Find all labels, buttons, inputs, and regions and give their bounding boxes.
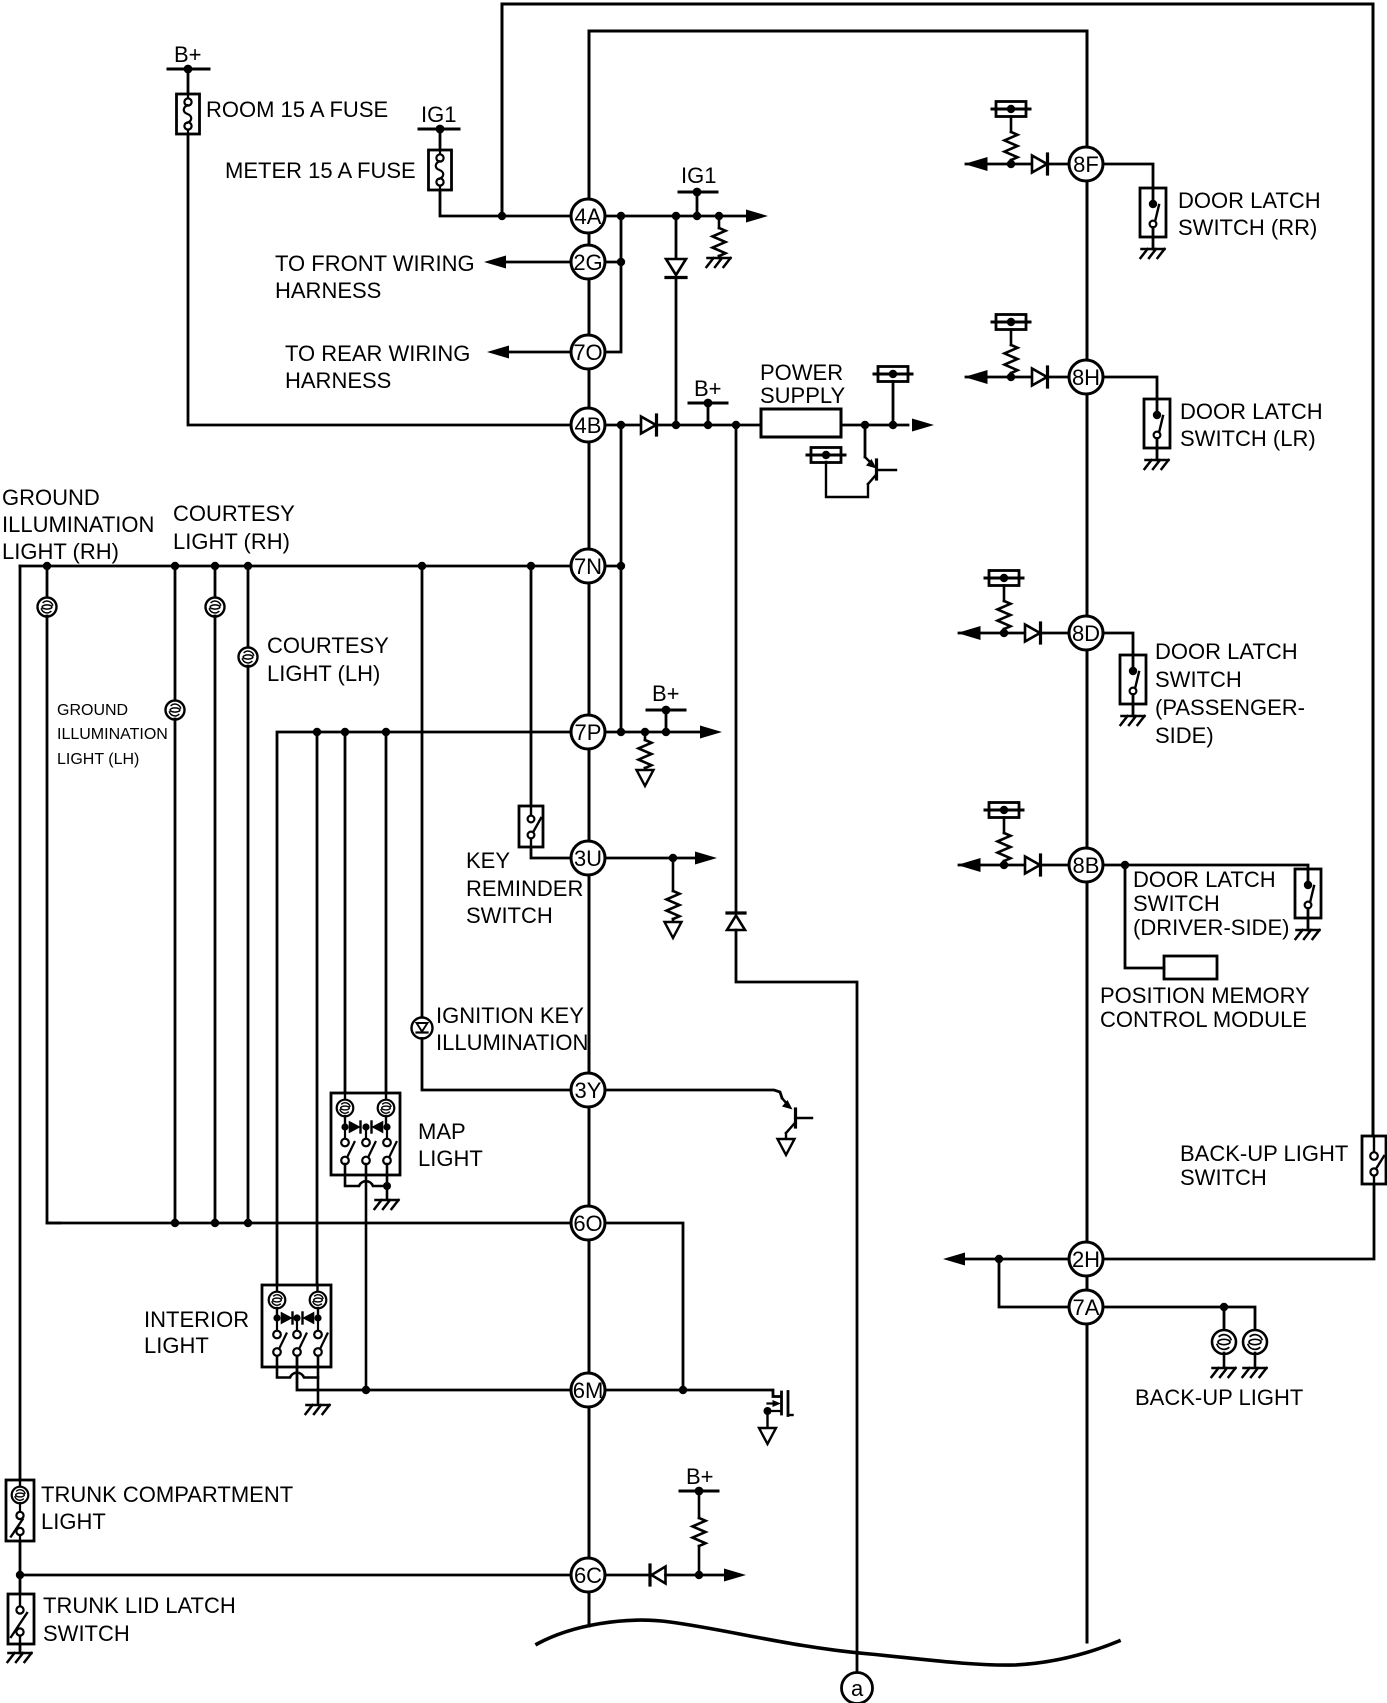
- svg-text:SWITCH (LR): SWITCH (LR): [1180, 426, 1316, 451]
- wire 3Y row right: [606, 1090, 782, 1098]
- wire 8H to door latch switch LR: [1104, 377, 1157, 399]
- connector 6C: [571, 1558, 605, 1592]
- ground back-up lamp 2: [1243, 1368, 1267, 1377]
- junction 7N-x175: [171, 562, 179, 570]
- wire interior right col to ground: [317, 1356, 320, 1404]
- svg-text:SWITCH (RR): SWITCH (RR): [1178, 215, 1317, 240]
- junction 2G-x621: [617, 258, 625, 266]
- wire trunk light to 6C row: [19, 1541, 22, 1575]
- lamp trunk compartment light: [12, 1487, 29, 1504]
- svg-text:SWITCH: SWITCH: [1155, 667, 1242, 692]
- wire 2H row left: [962, 1258, 1069, 1261]
- svg-text:2H: 2H: [1072, 1247, 1100, 1272]
- arrow power supply right: [912, 419, 934, 432]
- diode x736 (points up): [727, 911, 745, 914]
- svg-text:CONTROL MODULE: CONTROL MODULE: [1100, 1007, 1307, 1032]
- ground 4A row resistor: [707, 258, 731, 267]
- position memory control module box: [1164, 956, 1217, 979]
- wire power supply output: [841, 424, 908, 427]
- wire interior middle col to 6M row: [297, 1356, 571, 1390]
- ground trunk lid latch switch: [8, 1653, 32, 1662]
- junction 6C-trunk: [16, 1571, 24, 1579]
- svg-text:(PASSENGER-: (PASSENGER-: [1155, 695, 1305, 720]
- resistor 7P row pulldown: [644, 732, 647, 740]
- interior light box: [262, 1285, 331, 1367]
- junction 7N-x248: [244, 562, 252, 570]
- svg-text:8H: 8H: [1072, 365, 1100, 390]
- svg-text:GROUND: GROUND: [2, 485, 100, 510]
- wire 7A row right: [1104, 1307, 1255, 1331]
- door latch switch (passenger-side): [1120, 655, 1146, 725]
- arrow 7P row right: [700, 726, 722, 739]
- svg-text:INTERIOR: INTERIOR: [144, 1307, 249, 1332]
- wire 6C row right: [606, 1574, 650, 1577]
- switch interior col3: [317, 1318, 319, 1331]
- door latch switch (RR): [1140, 188, 1166, 258]
- wire 2G stub to x621: [606, 261, 621, 264]
- connector 7A: [1069, 1290, 1103, 1324]
- wire 6C row left: [20, 1574, 571, 1577]
- wire x422 7N to ignition key illumination: [421, 566, 424, 1018]
- svg-text:B+: B+: [686, 1464, 714, 1489]
- diode 6C row (points left): [648, 1565, 651, 1585]
- wire x736 diode to a-line: [736, 930, 857, 1672]
- junction 7P-x386: [382, 728, 390, 736]
- svg-text:TO FRONT WIRING: TO FRONT WIRING: [275, 251, 475, 276]
- connector 4A: [571, 199, 605, 233]
- junction 4A-x621: [617, 212, 625, 220]
- junction 7P-B+: [662, 728, 670, 736]
- svg-text:IGNITION KEY: IGNITION KEY: [436, 1003, 584, 1028]
- diode interior right (points left): [304, 1313, 314, 1323]
- svg-text:SWITCH: SWITCH: [43, 1621, 130, 1646]
- wire diode to power supply: [657, 424, 761, 427]
- connector 3Y: [571, 1073, 605, 1107]
- arrow 3U row right: [695, 852, 717, 865]
- wire x317 down to interior light: [316, 732, 319, 1285]
- junction 2H-7A link: [995, 1255, 1003, 1263]
- wire top inner line: [589, 31, 1087, 216]
- arrow 2H row left: [943, 1253, 965, 1266]
- lamp courtesy light RH: [206, 598, 225, 617]
- svg-text:GROUND: GROUND: [57, 702, 128, 719]
- svg-text:8D: 8D: [1072, 621, 1100, 646]
- svg-text:8F: 8F: [1073, 152, 1099, 177]
- wire back-up lamp 1 to ground: [1223, 1353, 1226, 1367]
- wire 8F to door latch switch RR: [1104, 164, 1153, 188]
- wire x345 down to map light: [344, 732, 347, 1093]
- svg-text:LIGHT (LH): LIGHT (LH): [267, 661, 380, 686]
- junction map ground: [383, 1182, 391, 1190]
- wire x20 down to trunk light: [19, 566, 22, 1480]
- diode map left (points right): [350, 1122, 360, 1132]
- wire into interior box: [276, 1285, 278, 1292]
- junction 6C-B+: [695, 1571, 703, 1579]
- svg-text:B+: B+: [652, 681, 680, 706]
- terminal at transistor emitter: [807, 448, 845, 463]
- junction 6O-x175: [171, 1219, 179, 1227]
- junction 6O-x215: [211, 1219, 219, 1227]
- switch trunk compartment light: [19, 1503, 21, 1512]
- terminal+resistor+diode assembly at 8F: [966, 102, 1081, 175]
- wire 4B output row: [606, 424, 641, 427]
- connector a (bottom): [842, 1673, 873, 1703]
- wire map lamp columns: [344, 1116, 346, 1127]
- wire x215 upper: [214, 566, 217, 598]
- svg-text:BACK-UP LIGHT: BACK-UP LIGHT: [1180, 1141, 1348, 1166]
- junction 7P-x345: [341, 728, 349, 736]
- transistor Q1 (power supply control): [864, 425, 867, 457]
- wire back-up lamp 2 to ground: [1254, 1353, 1257, 1367]
- wire B+ to room fuse: [187, 69, 190, 94]
- wire LED to 3Y: [422, 1039, 571, 1091]
- connector 7P: [571, 715, 605, 749]
- connector 8F: [1069, 147, 1103, 181]
- ground arrow Q2 emitter: [778, 1139, 795, 1155]
- svg-text:KEY: KEY: [466, 848, 510, 873]
- wire trunk lid latch to ground: [19, 1644, 22, 1653]
- svg-text:DOOR LATCH: DOOR LATCH: [1180, 399, 1323, 424]
- ground arrow 7P resistor: [644, 768, 647, 770]
- diode 4B row (points right): [641, 415, 657, 435]
- lamp courtesy light LH: [239, 648, 258, 667]
- svg-text:REMINDER: REMINDER: [466, 876, 583, 901]
- svg-text:6C: 6C: [574, 1563, 602, 1588]
- ground arrow 3U resistor: [672, 919, 675, 922]
- connector 7O: [571, 335, 605, 369]
- wire into map box: [344, 1093, 346, 1100]
- wire 6M row right: [606, 1390, 780, 1397]
- MOSFET (6M row): [780, 1392, 783, 1414]
- junction 4B-x736: [732, 421, 740, 429]
- svg-text:a: a: [851, 1676, 864, 1701]
- svg-text:TRUNK LID LATCH: TRUNK LID LATCH: [43, 1593, 236, 1618]
- wire IG1 to meter fuse: [439, 129, 442, 150]
- svg-text:ILLUMINATION: ILLUMINATION: [2, 512, 154, 537]
- svg-text:LIGHT: LIGHT: [41, 1509, 106, 1534]
- wire 2G arrow to front harness: [503, 261, 571, 264]
- fuse METER 15 A FUSE: [429, 150, 452, 190]
- svg-text:2G: 2G: [573, 250, 602, 275]
- wire 3U row right: [606, 857, 699, 860]
- wire 2H link down to 7A: [999, 1259, 1069, 1307]
- switch map col1: [344, 1127, 346, 1139]
- diode interior left (points right): [282, 1313, 292, 1323]
- wire x175 lamp to 6O row: [174, 719, 177, 1223]
- wire top outer line: [502, 4, 1373, 1136]
- svg-text:IG1: IG1: [421, 102, 456, 127]
- wire 6C diode to arrow: [666, 1574, 729, 1577]
- junction 7N-x422: [418, 562, 426, 570]
- wire x531 7N to key reminder switch: [530, 566, 533, 806]
- wire map join with hop: [345, 1164, 387, 1186]
- svg-text:7P: 7P: [575, 720, 602, 745]
- junction 8B-module: [1121, 861, 1129, 869]
- junction map diode row: [341, 1123, 348, 1130]
- junction x621-7P: [617, 728, 625, 736]
- lamp back-up light 1: [1212, 1330, 1236, 1354]
- wire x621 4B to 7P: [620, 425, 623, 732]
- svg-text:(DRIVER-SIDE): (DRIVER-SIDE): [1133, 915, 1289, 940]
- svg-text:7N: 7N: [574, 554, 602, 579]
- trunk lid latch switch box: [8, 1594, 34, 1644]
- svg-text:COURTESY: COURTESY: [173, 501, 295, 526]
- wire 7N row left: [20, 565, 571, 568]
- svg-text:SWITCH: SWITCH: [1133, 891, 1220, 916]
- svg-text:HARNESS: HARNESS: [285, 368, 391, 393]
- connector 8B: [1069, 848, 1103, 882]
- switch map col2: [365, 1127, 367, 1139]
- resistor B+ to 6C row: [698, 1491, 701, 1518]
- map light box: [331, 1093, 400, 1175]
- svg-text:METER 15 A FUSE: METER 15 A FUSE: [225, 158, 416, 183]
- transistor Q2 (3Y branch): [782, 1098, 787, 1104]
- junction ps-terminal: [889, 421, 897, 429]
- wire x386 down to map light: [385, 732, 388, 1093]
- junction 4B-x621: [617, 421, 625, 429]
- connector 6O: [571, 1206, 605, 1240]
- wire map middle col to 6M: [365, 1164, 368, 1390]
- svg-text:6M: 6M: [573, 1378, 604, 1403]
- svg-text:LIGHT: LIGHT: [144, 1333, 209, 1358]
- terminal+resistor+diode assembly at 8D: [959, 571, 1074, 644]
- svg-text:POSITION MEMORY: POSITION MEMORY: [1100, 983, 1310, 1008]
- wire 7P row right: [606, 731, 704, 734]
- fuse ROOM 15 A FUSE: [177, 94, 200, 134]
- terminal+resistor+diode assembly at 8B: [959, 803, 1074, 876]
- lamp back-up light 2: [1243, 1330, 1267, 1354]
- junction 4A-diode: [672, 212, 680, 220]
- wire into trunk light box: [19, 1480, 21, 1488]
- arrow to rear wiring harness: [487, 346, 509, 359]
- wire main center bus: [588, 216, 591, 1626]
- wire 4A output row: [606, 215, 750, 218]
- lamp map light left: [337, 1100, 354, 1117]
- wire 6O row right down to 6M: [606, 1223, 683, 1390]
- svg-text:B+: B+: [694, 376, 722, 401]
- lamp interior right: [310, 1292, 327, 1309]
- wire 8B to door latch switch driver: [1104, 865, 1308, 869]
- wire meter fuse to 4A: [440, 190, 571, 216]
- arrow to front wiring harness: [484, 256, 506, 269]
- svg-text:DOOR LATCH: DOOR LATCH: [1133, 867, 1276, 892]
- svg-text:MAP: MAP: [418, 1119, 466, 1144]
- door latch switch (LR): [1144, 399, 1170, 469]
- wire 6O row left: [47, 1222, 571, 1225]
- svg-text:SWITCH: SWITCH: [466, 903, 553, 928]
- wire map right col to ground: [386, 1164, 389, 1199]
- connector 3U: [571, 841, 605, 875]
- lamp map light right: [378, 1100, 395, 1117]
- ground map light: [375, 1200, 399, 1209]
- connector 2H: [1069, 1242, 1103, 1276]
- svg-text:IG1: IG1: [681, 163, 716, 188]
- junction 4B-B+: [704, 421, 712, 429]
- ground back-up lamp 1: [1212, 1368, 1236, 1377]
- diode 4A row down (under 4A line): [675, 216, 678, 259]
- terminal+resistor+diode assembly at 8H: [966, 315, 1081, 388]
- wire 6C row to trunk lid latch: [19, 1575, 22, 1594]
- svg-text:DOOR LATCH: DOOR LATCH: [1155, 639, 1298, 664]
- junction 3U-resistor: [669, 854, 677, 862]
- connector 4B: [571, 408, 605, 442]
- diode map right (points left): [373, 1122, 383, 1132]
- power supply box: [761, 409, 841, 437]
- svg-text:LIGHT (RH): LIGHT (RH): [173, 529, 290, 554]
- wire key reminder switch to 3U: [531, 847, 571, 858]
- wire 8D to door latch switch passenger: [1104, 633, 1133, 655]
- wave break line: [537, 1620, 1119, 1665]
- junction 4B-diode column: [672, 421, 680, 429]
- wire interior join with hop: [277, 1356, 318, 1378]
- lamp ground illumination light RH: [38, 598, 57, 617]
- LED ignition key illumination: [412, 1018, 433, 1039]
- junction 7N-x215: [211, 562, 219, 570]
- door latch switch (driver-side): [1295, 869, 1321, 939]
- wire 7P row left: [277, 732, 571, 1285]
- connector 6M: [571, 1373, 605, 1407]
- lamp ground illumination light LH: [166, 701, 185, 720]
- wire 8B to position memory control module: [1125, 865, 1164, 968]
- svg-text:8B: 8B: [1073, 853, 1100, 878]
- arrow 4A row right: [746, 210, 768, 223]
- svg-text:SIDE): SIDE): [1155, 723, 1214, 748]
- svg-text:6O: 6O: [573, 1211, 602, 1236]
- junction ps-transistor: [861, 421, 869, 429]
- svg-text:4A: 4A: [575, 204, 602, 229]
- switch interior col2: [296, 1318, 298, 1331]
- junction 6M-x683: [679, 1386, 687, 1394]
- wire x736 down from 4B: [735, 425, 738, 913]
- arrow 6C row right: [724, 1569, 746, 1582]
- wire x47 lamp to 6O row: [47, 616, 60, 1223]
- wire diode to 4B row: [675, 278, 678, 426]
- svg-text:BACK-UP LIGHT: BACK-UP LIGHT: [1135, 1385, 1303, 1410]
- junction 7N-x531: [527, 562, 535, 570]
- svg-text:7O: 7O: [573, 340, 602, 365]
- svg-text:ILLUMINATION: ILLUMINATION: [436, 1030, 588, 1055]
- trunk compartment light box: [6, 1480, 34, 1541]
- junction 7A-lamp1: [1220, 1303, 1228, 1311]
- junction 4A-resistor: [715, 212, 723, 220]
- svg-text:HARNESS: HARNESS: [275, 278, 381, 303]
- wire right bus: [1086, 31, 1089, 1642]
- connector 2G: [571, 245, 605, 279]
- junction 6O-x248: [244, 1219, 252, 1227]
- lamp interior left: [269, 1292, 286, 1309]
- svg-text:ROOM 15 A FUSE: ROOM 15 A FUSE: [206, 97, 388, 122]
- svg-text:TO REAR WIRING: TO REAR WIRING: [285, 341, 470, 366]
- junction 4A-IG1: [693, 212, 701, 220]
- wire 7A to back-up lamp 1: [1223, 1307, 1226, 1331]
- resistor 3U pulldown: [672, 858, 675, 891]
- wire room fuse to 4B: [188, 134, 571, 425]
- svg-text:7A: 7A: [1073, 1295, 1100, 1320]
- wire 7N stub right: [606, 565, 621, 568]
- wire x248 upper: [247, 566, 250, 648]
- svg-text:SUPPLY: SUPPLY: [760, 383, 846, 408]
- svg-text:3Y: 3Y: [575, 1078, 602, 1103]
- svg-text:LIGHT (RH): LIGHT (RH): [2, 539, 119, 564]
- junction 7N-x47: [43, 562, 51, 570]
- connector 8H: [1069, 360, 1103, 394]
- resistor 4A row to ground: [718, 216, 721, 228]
- wire interior lamp columns: [276, 1308, 278, 1318]
- wire back-up light switch to 2H: [1104, 1184, 1374, 1259]
- wire x215 lamp to 6O row: [214, 616, 217, 1223]
- wire x175 upper: [174, 566, 177, 701]
- wire x47 upper: [46, 566, 49, 598]
- wire 7O arrow to rear harness: [506, 351, 571, 354]
- junction 7P-x317: [313, 728, 321, 736]
- key reminder switch: [519, 806, 543, 847]
- svg-text:SWITCH: SWITCH: [1180, 1165, 1267, 1190]
- wire x621 bus 4A-7O: [606, 216, 621, 352]
- connector 7N: [571, 549, 605, 583]
- junction 6M-x366: [362, 1386, 370, 1394]
- wire x248 lamp to 6O row: [247, 666, 250, 1223]
- junction 7P-resistor: [641, 728, 649, 736]
- terminal above power supply output: [874, 367, 912, 382]
- connector 8D: [1069, 616, 1103, 650]
- svg-text:LIGHT: LIGHT: [418, 1146, 483, 1171]
- junction top outer line on 4A wire: [498, 212, 506, 220]
- svg-text:ILLUMINATION: ILLUMINATION: [57, 726, 168, 743]
- svg-text:COURTESY: COURTESY: [267, 633, 389, 658]
- svg-text:4B: 4B: [575, 413, 602, 438]
- svg-text:DOOR LATCH: DOOR LATCH: [1178, 188, 1321, 213]
- back-up light switch: [1362, 1136, 1386, 1184]
- svg-text:POWER: POWER: [760, 360, 843, 385]
- switch interior col1: [276, 1318, 278, 1331]
- ground arrow MOSFET source: [759, 1428, 776, 1444]
- switch map col3: [386, 1127, 388, 1139]
- svg-text:TRUNK COMPARTMENT: TRUNK COMPARTMENT: [41, 1482, 293, 1507]
- svg-text:3U: 3U: [574, 846, 602, 871]
- junction x621-7N: [617, 562, 625, 570]
- svg-text:LIGHT (LH): LIGHT (LH): [57, 751, 139, 768]
- svg-text:B+: B+: [174, 42, 202, 67]
- ground interior light: [306, 1405, 330, 1414]
- junction interior diode row: [273, 1314, 280, 1321]
